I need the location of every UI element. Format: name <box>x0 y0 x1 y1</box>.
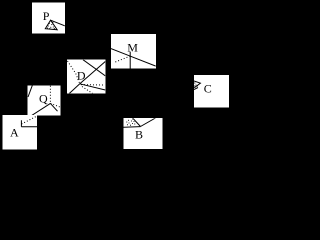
svg-text:B: B <box>135 127 143 141</box>
box C <box>194 75 229 108</box>
dotted vertical Q <box>49 86 51 104</box>
box A <box>3 115 38 149</box>
ray to right edge D <box>80 84 106 90</box>
dotted descending D <box>82 87 93 94</box>
arm up-right B <box>141 118 156 127</box>
solid diagonal D <box>83 60 105 76</box>
ray to bottom-left D <box>69 84 79 94</box>
horizontal line B <box>123 126 140 129</box>
dotted vertical C <box>194 83 196 88</box>
dotted ray right Q <box>50 103 60 107</box>
vertical arm A <box>20 120 22 127</box>
solid ray down-left Q <box>32 103 51 115</box>
box P <box>32 2 65 33</box>
svg-text:C: C <box>204 82 212 96</box>
svg-text:M: M <box>127 41 138 55</box>
solid ray down-right Q <box>50 103 57 111</box>
dotted horizontal ray D <box>81 84 104 86</box>
box D <box>67 60 106 94</box>
svg-text:A: A <box>10 126 19 140</box>
angle at C <box>194 81 200 88</box>
horizontal arm A <box>21 126 37 128</box>
box M <box>111 34 156 69</box>
ray to top-right corner D <box>80 62 106 84</box>
arm up-left B <box>133 118 141 126</box>
stipple dots P <box>47 22 55 29</box>
triangle at P <box>45 20 57 30</box>
box B <box>123 118 162 149</box>
svg-text:D: D <box>77 69 86 83</box>
dots C <box>196 85 199 87</box>
svg-text:Q: Q <box>39 91 48 105</box>
ray from apex P <box>51 20 65 26</box>
main line M <box>111 49 156 67</box>
vertical line M <box>129 52 131 69</box>
stipple dots B <box>126 118 135 125</box>
dotted ray A <box>22 116 38 124</box>
short stroke C <box>194 88 198 90</box>
dotted ray M <box>114 56 130 62</box>
dotted diagonal from top-left D <box>68 61 80 84</box>
left line Q <box>28 85 32 97</box>
box Q <box>28 85 61 115</box>
svg-text:P: P <box>43 9 50 23</box>
